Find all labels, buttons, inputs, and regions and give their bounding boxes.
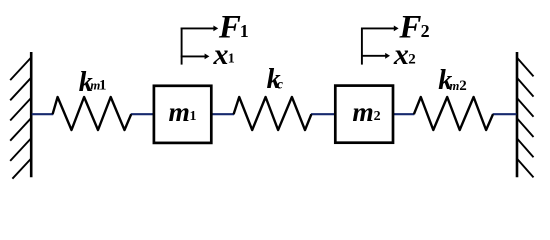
force arrow frame F2/x2: [361, 28, 394, 65]
wire spring k_m1 to mass m1: [131, 113, 154, 115]
arrowhead F1: [213, 26, 218, 32]
arrowhead x2: [385, 53, 390, 59]
label k_c: [267, 64, 284, 95]
right wall: [517, 52, 534, 177]
svg-text:1: 1: [190, 109, 197, 124]
wire spring k_m2 to wall: [493, 113, 517, 115]
spring k_c: [234, 97, 312, 130]
svg-text:2: 2: [421, 21, 430, 41]
label F2: [398, 10, 429, 46]
svg-text:1: 1: [228, 52, 235, 67]
label x1: [213, 38, 235, 71]
svg-text:1: 1: [99, 77, 107, 93]
left wall: [10, 52, 31, 179]
label k_m1: [79, 67, 107, 98]
wire wall to spring k_m1: [32, 113, 53, 115]
spring k_m1: [53, 97, 132, 130]
wire spring k_c to mass m2: [311, 113, 336, 115]
svg-text:m: m: [169, 96, 190, 127]
svg-text:x: x: [213, 38, 229, 71]
label F1: [218, 10, 249, 46]
mass m2 box: [335, 86, 393, 143]
label m2: [352, 96, 380, 127]
label k_m2: [438, 65, 466, 96]
svg-text:2: 2: [408, 51, 416, 67]
svg-text:2: 2: [459, 78, 467, 94]
arrowhead F2: [394, 26, 399, 32]
svg-text:m: m: [352, 96, 373, 127]
label m1: [169, 96, 197, 127]
arrowhead x1: [205, 54, 210, 60]
svg-text:2: 2: [374, 109, 381, 124]
label x2: [393, 38, 416, 71]
force arrow frame F1/x1: [181, 28, 214, 65]
spring k_m2: [414, 97, 493, 130]
svg-text:c: c: [277, 77, 284, 92]
wire mass m1 to spring k_c: [211, 113, 234, 115]
svg-text:m: m: [449, 78, 459, 93]
wire mass m2 to spring k_m2: [393, 113, 415, 115]
mass m1 box: [154, 86, 211, 143]
svg-text:1: 1: [240, 21, 249, 41]
svg-text:x: x: [393, 38, 409, 71]
